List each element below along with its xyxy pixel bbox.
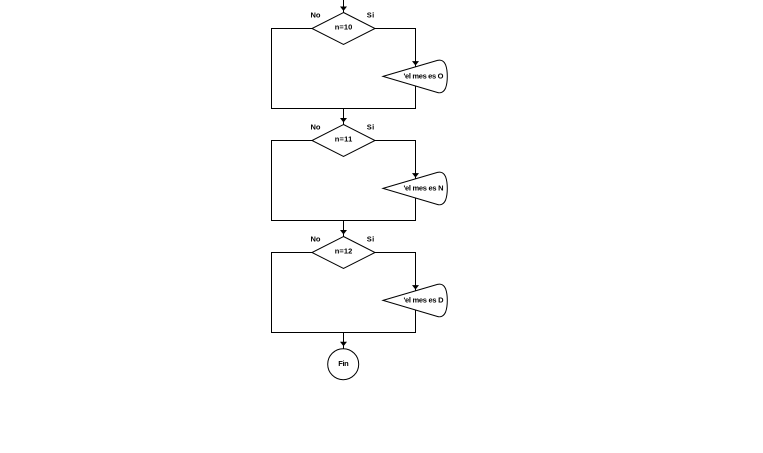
svg-text:'el mes es D: 'el mes es D — [404, 296, 445, 305]
svg-text:Fin: Fin — [338, 359, 349, 368]
svg-text:No: No — [311, 235, 321, 244]
svg-text:Si: Si — [367, 123, 375, 132]
svg-text:Si: Si — [367, 235, 375, 244]
svg-text:n=12: n=12 — [335, 247, 353, 256]
svg-text:No: No — [311, 123, 321, 132]
svg-text:n=10: n=10 — [335, 23, 353, 32]
svg-text:No: No — [311, 11, 321, 20]
svg-text:'el mes es O: 'el mes es O — [404, 72, 444, 81]
svg-text:'el mes es N: 'el mes es N — [404, 184, 444, 193]
svg-text:n=11: n=11 — [335, 135, 353, 144]
svg-text:Si: Si — [367, 11, 375, 20]
